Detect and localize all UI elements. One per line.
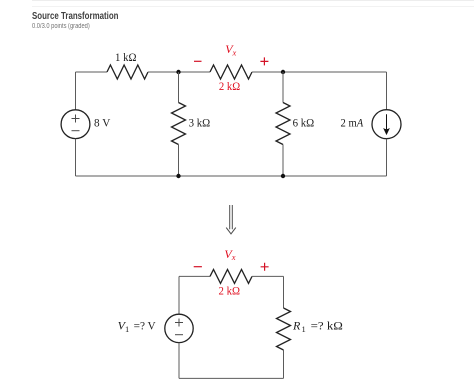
title: Source Transformation [32, 11, 118, 22]
wire 6k branch upper [282, 72, 284, 103]
wire top-left segment [76, 71, 108, 73]
wire left vertical lower [75, 139, 77, 176]
wire top-right segment [252, 71, 387, 73]
resistor 6 kOhm (vertical) [276, 103, 290, 145]
top divider line 2 [32, 6, 474, 7]
svg-text:2 kΩ: 2 kΩ [219, 79, 240, 93]
wire bottom circuit bottom rail [179, 377, 284, 379]
current source arrow [384, 114, 389, 134]
label 8 V [94, 115, 111, 129]
wire top-middle segment [148, 71, 210, 73]
svg-text:2 kΩ: 2 kΩ [219, 284, 241, 298]
svg-text:6 kΩ: 6 kΩ [293, 115, 315, 129]
wire right vertical upper [386, 72, 388, 110]
wire bottom circuit left upper [178, 276, 180, 314]
subtitle: points graded [32, 23, 90, 30]
label V1 = ? V [118, 319, 156, 334]
label minus sign (top, red) [194, 60, 202, 62]
double down arrow [226, 205, 236, 234]
voltage source V1 minus sign [175, 334, 183, 336]
node top-right junction [281, 70, 285, 74]
current source 2mA circle [372, 110, 401, 139]
label plus sign (bottom, red) [261, 263, 269, 271]
label 2 kOhm (bottom, red) [219, 284, 241, 298]
label Vx (bottom, red) [224, 247, 235, 262]
voltage source 8V circle [61, 110, 90, 139]
wire bottom circuit top-right [252, 275, 284, 277]
resistor 2 kOhm (top circuit, horizontal) [210, 65, 252, 79]
node bottom-left junction [176, 174, 180, 178]
wire right vertical lower [386, 139, 388, 176]
label Vx (top, red) [225, 42, 236, 57]
svg-text:3 kΩ: 3 kΩ [189, 115, 211, 129]
svg-text:Vx: Vx [225, 42, 236, 57]
label plus sign (top, red) [260, 57, 268, 65]
wire bottom circuit right upper [283, 276, 285, 308]
wire bottom circuit top-left [179, 275, 210, 277]
node bottom-right junction [281, 174, 285, 178]
label 2 kOhm (top, red) [219, 79, 240, 93]
svg-text:Vx: Vx [224, 247, 235, 262]
label 1 kOhm [115, 50, 137, 64]
label minus sign (bottom, red) [194, 266, 202, 268]
svg-text:V1=? V: V1=? V [118, 319, 156, 334]
wire 6k branch lower [282, 145, 284, 177]
wire left vertical upper [75, 72, 77, 110]
voltage source plus sign [72, 115, 80, 123]
svg-text:1 kΩ: 1 kΩ [115, 50, 137, 64]
svg-text:8 V: 8 V [94, 115, 111, 129]
label R1 = ? kOhm [292, 319, 343, 334]
wire bottom rail [76, 175, 387, 177]
resistor 3 kOhm (vertical) [172, 103, 186, 145]
resistor R1 (vertical) [277, 308, 291, 350]
label 2 mA [341, 115, 364, 129]
voltage source V1 plus sign [175, 319, 183, 327]
svg-text:R1=? kΩ: R1=? kΩ [292, 319, 343, 334]
label 3 kOhm [189, 115, 211, 129]
wire bottom circuit left lower [178, 343, 180, 379]
resistor 2 kOhm (bottom circuit, horizontal) [210, 269, 252, 283]
wire bottom circuit right lower [283, 350, 285, 378]
top divider line 1 [32, 0, 474, 1]
node top-left junction [176, 70, 180, 74]
wire 3k branch upper [178, 72, 180, 103]
svg-text:2 mA: 2 mA [341, 115, 364, 129]
voltage source V1 circle [165, 314, 193, 342]
resistor 1 kOhm (top left, horizontal) [107, 65, 148, 79]
wire 3k branch lower [178, 145, 180, 177]
label 6 kOhm [293, 115, 315, 129]
voltage source minus sign [72, 130, 80, 132]
